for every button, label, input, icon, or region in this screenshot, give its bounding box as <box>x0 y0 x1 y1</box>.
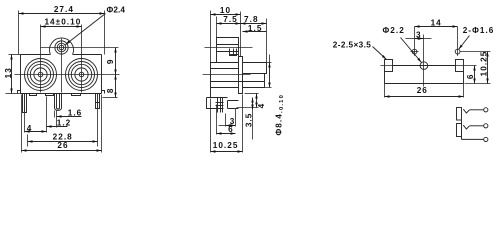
rv small hole right Φ1.6 <box>455 49 460 54</box>
sv dim 10 line <box>211 14 241 16</box>
svg-text:14±0.10: 14±0.10 <box>44 18 81 27</box>
dim 1.2 line <box>47 126 68 128</box>
dim 8 bottom ext <box>103 97 118 99</box>
svg-text:2-2.5×3.5: 2-2.5×3.5 <box>333 41 371 50</box>
schematic middle terminal <box>484 124 488 128</box>
svg-text:6: 6 <box>466 73 475 79</box>
svg-text:3: 3 <box>416 31 422 40</box>
dim 9 line <box>115 48 117 75</box>
side view bump hole lines <box>217 44 239 46</box>
svg-text:1.2: 1.2 <box>57 118 72 127</box>
sv dim Φ8.4 ext lines <box>243 62 272 64</box>
sv dim 7.8 ext lines <box>240 12 242 57</box>
sv dim 3.5 line tail <box>252 110 254 140</box>
side view rear block inner lines <box>243 73 267 75</box>
side view bump axis centerline <box>205 47 253 49</box>
svg-text:4: 4 <box>27 124 33 133</box>
dim 26 ext lines <box>21 95 23 153</box>
side view flange <box>239 57 243 94</box>
rv ext line right small hole <box>457 27 459 56</box>
sv dim 6 ext line <box>216 105 218 135</box>
sv dim 7.8 line <box>241 23 267 25</box>
sv dim 3.5 line <box>252 98 254 110</box>
rv dim 3 tails <box>406 38 415 40</box>
side view barrel outline <box>211 63 239 88</box>
svg-text:4: 4 <box>257 103 266 109</box>
dim 26 line <box>22 150 102 152</box>
dim 1.6 ext lines <box>54 111 56 118</box>
svg-text:10.25: 10.25 <box>480 51 489 77</box>
left jack circles <box>25 59 57 91</box>
sv dim 7.5 ext line <box>216 17 218 38</box>
schematic upper wire <box>470 109 484 111</box>
dim 13 line <box>11 55 13 94</box>
bump horizontal centerline / ext for dim 9 <box>41 47 119 49</box>
rv dim 26 line <box>385 96 464 98</box>
sv dim 10.25 ext lines <box>210 99 212 153</box>
rv center vertical line <box>423 35 425 87</box>
front view top mounting bump arc <box>50 38 74 55</box>
right jack circles <box>66 59 98 91</box>
sv dim Φ8.4 line <box>269 55 271 63</box>
schematic lower jack contact rect <box>457 124 462 137</box>
dim 22.8 ext lines <box>27 135 29 147</box>
front view body outline <box>21 55 102 94</box>
rv dim 14 line <box>415 26 458 28</box>
schematic middle wire <box>470 125 484 127</box>
dim 4 ext lines <box>24 107 26 133</box>
left jack vertical centerline / ext of dim 14 <box>40 25 42 93</box>
sv dim 3 line <box>226 125 236 127</box>
dim 4 line <box>25 131 47 133</box>
sv dim 7.5 line <box>217 23 241 25</box>
sv dim 1.5 line <box>243 31 267 33</box>
rv dim 3 line <box>415 38 424 40</box>
svg-text:7.5: 7.5 <box>223 15 238 24</box>
sv dim 6 line <box>217 133 236 135</box>
schematic ground bus wire <box>461 120 463 140</box>
dim 27.4 line <box>19 13 105 15</box>
dim 1.6 line <box>57 116 82 118</box>
svg-text:6: 6 <box>228 125 234 134</box>
rv dim 26 ext lines <box>384 84 386 98</box>
rv small hole left Φ1.6 <box>412 49 417 54</box>
sv dim 4 line <box>256 94 258 108</box>
svg-text:1.5: 1.5 <box>248 24 263 33</box>
svg-text:9: 9 <box>106 58 115 64</box>
side view barrel inner lines <box>211 68 239 70</box>
dim 27.4 ext lines <box>18 11 20 55</box>
side view bump outline <box>217 38 239 63</box>
svg-text:22.8: 22.8 <box>53 133 73 142</box>
side view rear block <box>243 63 267 88</box>
schematic upper jack contact rect <box>457 108 462 121</box>
side view pin cross lines <box>216 102 224 104</box>
bump vertical centerline <box>61 39 63 93</box>
dim 14±0.10 line <box>41 26 82 28</box>
left ground pin <box>23 94 27 113</box>
svg-text:2-Φ1.6: 2-Φ1.6 <box>463 26 495 35</box>
sv dim 4 ext lines <box>245 93 259 95</box>
center shield pin inner <box>57 94 60 109</box>
schematic ground wire <box>462 138 484 140</box>
rv footprint rect top edge <box>393 65 456 67</box>
jacks horizontal centerline <box>15 74 120 76</box>
side view rear lower box <box>228 101 239 109</box>
sv dim 10.25 line <box>211 151 243 153</box>
side view lower body and foot <box>207 88 228 109</box>
svg-text:10.25: 10.25 <box>213 141 239 150</box>
leader Φ2.4 <box>65 14 105 45</box>
dim 8 line <box>115 75 117 98</box>
sv dim 3 line tail <box>219 125 226 127</box>
rv leader Φ2.2 <box>401 38 422 63</box>
schematic middle switch contact <box>463 125 469 129</box>
side view barrel axis centerline <box>203 74 251 76</box>
svg-text:8: 8 <box>106 87 115 93</box>
rv left slot square <box>385 60 393 72</box>
rv dim 6 line <box>474 66 476 84</box>
svg-text:Φ2.4: Φ2.4 <box>107 5 126 14</box>
dim 22.8 line <box>28 141 98 143</box>
rv dim 10.25 ext lines <box>461 51 491 53</box>
center shield pin outer <box>55 94 62 111</box>
svg-text:10: 10 <box>220 6 231 15</box>
rv center hole Φ2.2 <box>420 62 428 70</box>
svg-text:26: 26 <box>417 86 428 95</box>
svg-text:7.8: 7.8 <box>244 15 259 24</box>
dim 13 ext lines <box>9 54 21 56</box>
schematic upper terminal <box>484 108 488 112</box>
side view body top edge <box>230 54 239 56</box>
side view boss box <box>230 49 237 56</box>
svg-text:Φ2.2: Φ2.2 <box>383 26 405 35</box>
schematic upper switch contact <box>463 109 469 113</box>
rv right slot square <box>456 60 464 72</box>
svg-text:14: 14 <box>431 19 442 28</box>
bottom edge ledge 1 <box>30 94 37 96</box>
svg-text:1.6: 1.6 <box>68 108 83 117</box>
svg-text:13: 13 <box>4 67 13 78</box>
rv row centerline <box>381 65 477 67</box>
right jack vertical centerline / ext of dim 14 <box>81 25 83 93</box>
rv leader 2-Φ1.6 <box>459 36 470 50</box>
bottom edge ledge 3 <box>72 94 81 96</box>
sv dim 10 ext lines <box>210 11 212 63</box>
schematic ground terminal <box>484 137 488 141</box>
svg-text:27.4: 27.4 <box>54 5 74 14</box>
bottom-right wing <box>102 91 105 94</box>
bottom edge ledge 2 <box>46 94 54 96</box>
svg-text:26: 26 <box>57 141 68 150</box>
side view pin 2 <box>222 98 224 113</box>
sv dim 3 ext lines <box>225 114 227 127</box>
svg-text:Φ8.4-0.10: Φ8.4-0.10 <box>275 94 286 136</box>
rv leader 2-2.5x3.5 <box>373 47 387 60</box>
rv small hole left centerline tick <box>411 51 419 53</box>
rv footprint rect sides and bottom <box>385 72 464 84</box>
right ground pin <box>96 94 100 109</box>
rv ext line left small hole <box>414 27 416 56</box>
bump hole circles (Φ2.4) <box>55 41 68 54</box>
rv dim 10.25 line <box>487 52 489 84</box>
bottom-left wing <box>18 91 21 94</box>
svg-text:3.5: 3.5 <box>244 113 253 128</box>
side view pin 1 <box>218 98 221 113</box>
